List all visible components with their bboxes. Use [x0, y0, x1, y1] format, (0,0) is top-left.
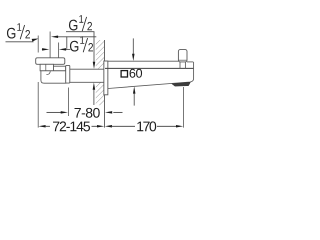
outlet aerator	[172, 82, 191, 86]
wall face line	[103, 40, 105, 128]
leader G1/2 top	[66, 32, 94, 63]
leader arrow to inlet pipe	[57, 36, 67, 38]
pipe stub to union nut	[54, 66, 66, 71]
dim 7-80	[47, 111, 63, 113]
fitting flange	[36, 58, 65, 65]
label G1/2 left	[7, 23, 30, 38]
spout right end + bottom slant	[108, 62, 194, 89]
union nut	[66, 65, 70, 83]
label G1/2 middle boxed	[70, 36, 93, 51]
fitting upper body	[40, 64, 53, 71]
square symbol	[121, 71, 127, 77]
ext line 72-145 left	[37, 82, 39, 128]
elbow inner arc	[46, 71, 50, 75]
pipe top line	[70, 68, 105, 70]
pipe bottom line	[70, 81, 105, 83]
inlet pipe left line	[49, 32, 51, 59]
dim 72-145	[38, 125, 45, 128]
elbow block	[41, 71, 66, 83]
spout top line	[108, 60, 178, 62]
section 60 down arrow	[132, 38, 134, 54]
underline	[6, 41, 34, 43]
escutcheon	[104, 61, 108, 95]
label G1/2 top	[69, 15, 92, 30]
pipe up-arrow below pipe	[93, 83, 96, 90]
wall hatch upper	[96, 40, 105, 69]
wall hatch lower	[96, 83, 105, 106]
ext line 170 right	[182, 87, 184, 128]
spout top line right of knob	[187, 61, 193, 63]
small arrow to extension line	[32, 39, 39, 42]
ext line 7-80 left	[67, 88, 69, 117]
knob	[178, 50, 187, 62]
box outline top+left	[67, 37, 97, 49]
spout second line	[105, 67, 193, 69]
inlet pipe right line	[58, 43, 60, 59]
thread dim arrows	[42, 48, 44, 50]
section 60 up arrow	[133, 93, 135, 105]
extension line flange-left upper segment	[37, 36, 39, 53]
arrow down to pipe top	[93, 62, 96, 69]
dim 170	[105, 125, 112, 128]
text 60	[130, 69, 143, 78]
